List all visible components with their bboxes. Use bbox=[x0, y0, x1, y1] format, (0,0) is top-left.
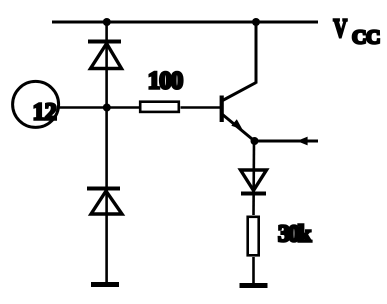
transistor Q1 bbox=[222, 22, 256, 141]
svg-text:30k: 30k bbox=[278, 221, 312, 247]
label Vcc bbox=[333, 14, 379, 49]
diode D1 (clamp to Vcc, cathode up) bbox=[88, 42, 122, 69]
node: input junction bbox=[103, 104, 111, 112]
diode D2 (clamp to ground, cathode up) bbox=[87, 189, 122, 215]
svg-text:CC: CC bbox=[352, 27, 380, 49]
wire: Vcc top rail bbox=[52, 21, 318, 24]
resistor R1 body bbox=[140, 102, 179, 112]
resistor R2 body bbox=[248, 217, 259, 256]
ground (left) bbox=[91, 282, 119, 287]
wire: emitter node down through D3 to R2 bbox=[252, 141, 255, 215]
source circle "12" bbox=[13, 81, 59, 127]
diode D3 (cathode down) bbox=[241, 170, 267, 194]
wire: rail down through D1 to input node bbox=[105, 22, 108, 108]
svg-text:100: 100 bbox=[148, 68, 183, 95]
node: emitter junction bbox=[251, 137, 259, 145]
emitter diagonal with arrow bbox=[223, 115, 255, 142]
arrowhead on output wire (pointing left) bbox=[297, 137, 308, 146]
collector vertical to rail bbox=[255, 22, 258, 84]
junction: rail / D1 branch bbox=[103, 18, 111, 26]
wire: source to resistor R1 (through node) bbox=[59, 106, 140, 109]
base bar bbox=[220, 96, 224, 123]
ground (right) bbox=[240, 283, 268, 288]
wire: input node down through D2 to ground bbox=[105, 108, 108, 284]
wire: emitter node to output terminal bbox=[255, 140, 319, 143]
wire: R2 to ground bbox=[252, 257, 255, 284]
wire: R1 to transistor base bbox=[181, 106, 221, 109]
svg-text:12: 12 bbox=[33, 99, 57, 125]
collector diagonal bbox=[223, 83, 257, 101]
junction: rail / collector bbox=[252, 18, 260, 26]
svg-text:V: V bbox=[333, 14, 347, 43]
